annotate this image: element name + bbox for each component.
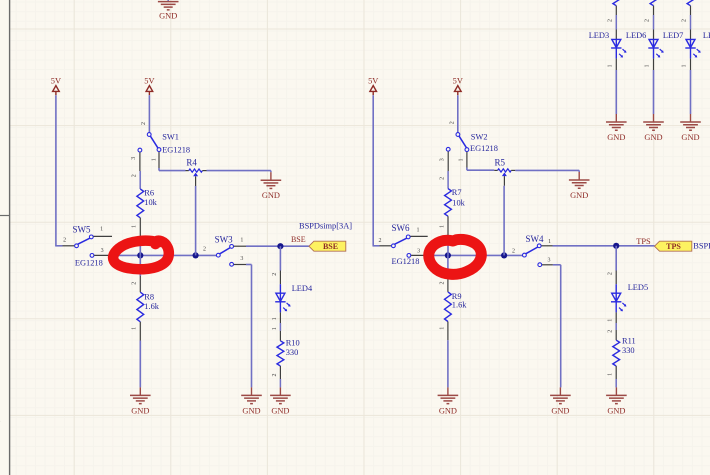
pin 2: [607, 19, 613, 22]
svg-text:GND: GND: [681, 133, 699, 142]
svg-text:LED5: LED5: [628, 283, 648, 292]
svg-text:GND: GND: [262, 191, 280, 200]
svg-text:1: 1: [645, 65, 651, 68]
pin 1: [645, 65, 651, 68]
switch SW4 EG1218: [523, 244, 553, 267]
resistor R8: [137, 292, 144, 322]
svg-text:2: 2: [440, 177, 446, 180]
svg-text:2: 2: [645, 19, 651, 22]
ground GND: [130, 387, 151, 415]
pin 1: [240, 237, 243, 243]
label SW2: [471, 132, 488, 141]
wire: [195, 176, 197, 255]
pin 2: [608, 330, 614, 333]
pin 2: [203, 246, 206, 252]
pin 2: [682, 19, 688, 22]
svg-text:LED3: LED3: [589, 31, 609, 40]
resistor R4: [189, 169, 203, 176]
label SW3: [215, 235, 234, 245]
label EG1218: [75, 259, 103, 268]
svg-text:R10: R10: [286, 338, 300, 347]
switch SW6 EG1218: [380, 235, 428, 257]
svg-text:2: 2: [141, 122, 147, 125]
pin 1: [272, 327, 278, 330]
annotation red circle (right): [429, 239, 482, 274]
svg-text:2: 2: [450, 121, 456, 124]
port TPS: [655, 241, 692, 251]
wire: [653, 48, 655, 114]
svg-text:3: 3: [240, 256, 243, 262]
wire: [139, 171, 141, 189]
wire: [139, 255, 141, 292]
svg-text:SW2: SW2: [471, 132, 488, 141]
wire: [615, 366, 617, 387]
svg-text:GND: GND: [644, 133, 662, 142]
wire: [55, 95, 62, 246]
wire: [690, 48, 692, 114]
svg-text:3: 3: [131, 157, 137, 160]
wire: [112, 254, 216, 256]
pin 1: [439, 327, 445, 330]
label 1.6k: [452, 301, 467, 310]
label R5: [494, 157, 505, 167]
svg-text:GND: GND: [131, 406, 149, 415]
sheet zone character D: [0, 417, 1, 426]
svg-text:GND: GND: [242, 406, 260, 415]
label R8: [144, 292, 154, 301]
svg-text:2: 2: [132, 174, 138, 177]
svg-text:R4: R4: [186, 157, 197, 167]
wire: [246, 265, 252, 388]
pin 1: [100, 227, 103, 233]
switch SW2 EG1218: [446, 133, 468, 171]
power 5V (SW1 supply): [144, 77, 154, 96]
pin 1: [440, 225, 446, 228]
label LED8 (clipped): [703, 31, 710, 40]
wire: [467, 168, 494, 171]
wire: [428, 254, 524, 256]
wire: [186, 170, 189, 172]
svg-text:SW1: SW1: [162, 132, 179, 141]
ground GND: [569, 170, 590, 200]
pin 2: [379, 238, 382, 244]
resistor above LED6 (clipped): [650, 0, 657, 6]
svg-text:1: 1: [548, 239, 551, 245]
svg-text:R11: R11: [622, 337, 636, 346]
svg-text:5V: 5V: [144, 77, 154, 86]
svg-text:SW4: SW4: [526, 234, 545, 244]
wire: [457, 95, 459, 132]
resistor R7: [445, 189, 452, 217]
svg-text:2: 2: [608, 272, 614, 275]
wire: [246, 245, 309, 247]
svg-text:10k: 10k: [144, 198, 157, 207]
pin 2: [512, 249, 515, 255]
svg-text:LED7: LED7: [663, 31, 683, 40]
pin 2: [272, 273, 278, 276]
ground GND: [606, 114, 627, 142]
svg-text:EG1218: EG1218: [75, 259, 103, 268]
label 330: [286, 348, 299, 357]
svg-text:1: 1: [440, 225, 446, 228]
svg-text:1: 1: [439, 327, 445, 330]
sheet zone character C: [0, 230, 1, 239]
wire: [615, 323, 617, 340]
svg-text:1.6k: 1.6k: [144, 302, 159, 311]
pin 1: [607, 65, 613, 68]
pin 3: [417, 248, 420, 254]
label LED4: [292, 284, 313, 293]
label R11: [622, 337, 636, 346]
svg-text:TPS: TPS: [666, 242, 681, 251]
pin 1: [608, 373, 614, 376]
svg-text:2: 2: [203, 246, 206, 252]
svg-text:5V: 5V: [368, 77, 378, 86]
led LED6: [648, 39, 663, 57]
wire: [279, 323, 281, 341]
label EG1218: [392, 257, 420, 266]
label EG1218: [162, 146, 190, 155]
sheet zone divider: [0, 215, 10, 217]
svg-text:LED8: LED8: [703, 31, 710, 40]
net label TPS: [636, 237, 651, 246]
wire: [503, 176, 505, 255]
svg-text:330: 330: [286, 348, 299, 357]
ground GND: [680, 114, 701, 142]
label R9: [452, 292, 462, 301]
wire: [553, 245, 655, 247]
switch SW1 EG1218: [138, 133, 161, 171]
svg-text:EG1218: EG1218: [162, 146, 190, 155]
label LED5: [628, 283, 648, 292]
svg-text:GND: GND: [551, 406, 569, 415]
pin 3: [439, 158, 445, 161]
wire: [690, 6, 692, 40]
wire: [279, 302, 281, 323]
label R10: [286, 338, 300, 347]
wire: [139, 322, 141, 388]
resistor R11: [613, 340, 620, 366]
svg-text:LED4: LED4: [292, 284, 313, 293]
net label BSPDsimp[3A]: [299, 222, 352, 231]
pin 3: [240, 256, 243, 262]
pin 2: [439, 282, 445, 285]
annotation red circle (left): [113, 241, 169, 270]
label 10k: [144, 198, 157, 207]
svg-text:EG1218: EG1218: [392, 257, 420, 266]
label R7: [452, 188, 462, 197]
net label BSE: [291, 235, 306, 244]
pin 2: [608, 272, 614, 275]
svg-text:5V: 5V: [51, 77, 61, 86]
node junction: [277, 243, 283, 249]
wire: [553, 265, 561, 388]
ground GND: [270, 387, 291, 415]
led LED3: [611, 39, 626, 57]
wire: [148, 95, 150, 132]
svg-text:2: 2: [608, 330, 614, 333]
port BSE: [309, 241, 346, 251]
svg-text:2: 2: [682, 19, 688, 22]
svg-text:1: 1: [272, 317, 278, 320]
svg-text:R8: R8: [144, 292, 154, 301]
ground GND: [438, 387, 459, 415]
pin 2: [645, 19, 651, 22]
svg-text:R7: R7: [452, 188, 462, 197]
switch SW5 EG1218: [63, 235, 113, 257]
label R4: [186, 157, 197, 167]
svg-text:TPS: TPS: [636, 237, 651, 246]
wire: [653, 6, 655, 40]
pin 1: [417, 227, 420, 233]
pin 1: [132, 327, 138, 330]
wire: [615, 246, 617, 293]
svg-text:R6: R6: [144, 188, 154, 197]
svg-text:2: 2: [439, 282, 445, 285]
svg-text:1: 1: [608, 319, 614, 322]
svg-text:2: 2: [63, 238, 66, 244]
svg-text:BSPDsimp[3A]: BSPDsimp[3A]: [299, 222, 352, 231]
pin 1: [272, 317, 278, 320]
svg-text:2: 2: [272, 273, 278, 276]
svg-text:1: 1: [132, 225, 138, 228]
svg-text:1: 1: [100, 227, 103, 233]
wire: [447, 216, 449, 255]
resistor R10: [277, 341, 284, 366]
svg-text:1: 1: [417, 227, 420, 233]
svg-text:10k: 10k: [452, 198, 465, 207]
pin 1: [608, 319, 614, 322]
wire: [202, 170, 271, 172]
svg-text:330: 330: [622, 346, 635, 355]
ground GND: [261, 171, 282, 201]
label SW1: [162, 132, 179, 141]
svg-text:2: 2: [607, 19, 613, 22]
svg-text:5V: 5V: [453, 77, 463, 86]
power 5V (SW2 supply): [453, 77, 463, 96]
svg-text:2: 2: [132, 282, 138, 285]
wire: [494, 169, 497, 171]
svg-text:GND: GND: [271, 406, 289, 415]
wire: [447, 255, 449, 292]
wire: [447, 322, 449, 388]
node junction: [137, 252, 143, 258]
svg-text:1.6k: 1.6k: [452, 301, 467, 310]
wire: [373, 95, 380, 246]
svg-text:GND: GND: [570, 191, 588, 200]
svg-text:1: 1: [272, 327, 278, 330]
svg-text:SW3: SW3: [215, 235, 234, 245]
svg-text:1: 1: [132, 327, 138, 330]
svg-text:1: 1: [607, 65, 613, 68]
pin 2: [132, 174, 138, 177]
pin 1: [682, 65, 688, 68]
pin 1: [152, 158, 158, 161]
resistor R5: [498, 169, 512, 176]
label EG1218: [470, 144, 498, 153]
ground GND: [606, 387, 627, 415]
resistor above LED7 (clipped): [687, 0, 694, 6]
node junction: [501, 252, 507, 258]
svg-text:1: 1: [682, 65, 688, 68]
svg-text:GND: GND: [159, 12, 177, 21]
svg-text:3: 3: [417, 248, 420, 254]
sheet border line: [9, 0, 11, 475]
svg-text:1: 1: [608, 373, 614, 376]
svg-text:2: 2: [512, 249, 515, 255]
ground GND: [550, 387, 571, 415]
pin 1: [132, 225, 138, 228]
wire: [615, 6, 617, 40]
wire: [159, 168, 186, 171]
label R6: [144, 188, 154, 197]
label 330: [622, 346, 635, 355]
label 1.6k: [144, 302, 159, 311]
label SW4: [526, 234, 545, 244]
pin 3: [101, 248, 104, 254]
pin 1: [548, 239, 551, 245]
svg-text:1: 1: [240, 237, 243, 243]
svg-text:SW5: SW5: [73, 224, 92, 234]
label LED6: [626, 31, 646, 40]
svg-text:BSE: BSE: [323, 242, 338, 251]
wire: [615, 302, 617, 323]
switch SW3 EG1218: [216, 245, 246, 267]
wire: [139, 218, 141, 256]
pin 3: [131, 157, 137, 160]
pin 2: [440, 177, 446, 180]
ground GND: [241, 387, 262, 415]
power 5V (SW6 supply): [368, 77, 378, 96]
ground GND: [643, 114, 664, 142]
svg-text:BSPD: BSPD: [693, 242, 710, 251]
node junction: [613, 243, 619, 249]
net label BSPD (clipped): [693, 242, 710, 251]
pin 1: [459, 159, 465, 162]
pin 2: [450, 121, 456, 124]
wire: [279, 246, 281, 293]
svg-text:EG1218: EG1218: [470, 144, 498, 153]
svg-text:3: 3: [101, 248, 104, 254]
svg-text:GND: GND: [607, 133, 625, 142]
svg-text:R5: R5: [494, 157, 505, 167]
pin 2: [132, 282, 138, 285]
node junction: [193, 252, 199, 258]
pin 2: [63, 238, 66, 244]
svg-text:2: 2: [379, 238, 382, 244]
pin 3: [548, 258, 551, 264]
label SW6: [392, 223, 411, 233]
label LED3: [589, 31, 609, 40]
label SW5: [73, 224, 92, 234]
label 10k: [452, 198, 465, 207]
led LED4: [275, 293, 290, 311]
wire: [167, 0, 169, 2]
label LED7: [663, 31, 683, 40]
led LED5: [611, 293, 626, 311]
wire: [279, 366, 281, 387]
pin 2: [272, 374, 278, 377]
wire: [511, 169, 579, 171]
svg-text:GND: GND: [439, 406, 457, 415]
svg-text:GND: GND: [607, 406, 625, 415]
resistor R6: [137, 189, 144, 218]
led LED7: [685, 39, 700, 57]
svg-text:1: 1: [459, 159, 465, 162]
power 5V (SW5 supply): [51, 77, 61, 96]
svg-text:2: 2: [272, 374, 278, 377]
svg-text:1: 1: [152, 158, 158, 161]
svg-text:SW6: SW6: [392, 223, 411, 233]
pin 2: [141, 122, 147, 125]
wire: [447, 171, 449, 189]
wire: [615, 48, 617, 114]
node junction: [445, 252, 451, 258]
svg-text:3: 3: [548, 258, 551, 264]
resistor above LED3 (clipped): [613, 0, 620, 6]
svg-text:3: 3: [439, 158, 445, 161]
svg-text:BSE: BSE: [291, 235, 306, 244]
resistor R9: [445, 292, 452, 322]
svg-text:LED6: LED6: [626, 31, 646, 40]
ground GND top: [158, 2, 179, 21]
